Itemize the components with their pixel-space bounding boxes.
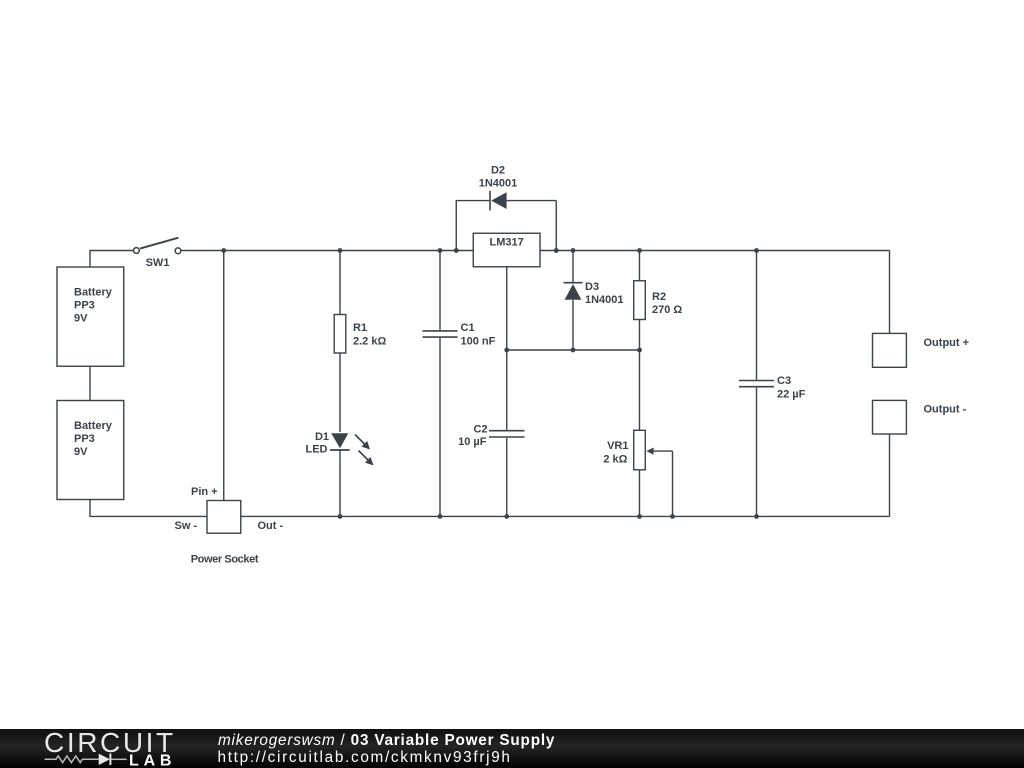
wire Pin+ vertical (top rail to socket)	[223, 251, 225, 501]
svg-text:Out -: Out -	[258, 520, 284, 532]
footer bar	[0, 729, 1024, 768]
junction dots ADJ rail	[504, 348, 642, 353]
svg-text:PP3: PP3	[74, 300, 95, 312]
junction dots top rail	[221, 248, 759, 253]
svg-text:9V: 9V	[74, 313, 88, 325]
logo resistor-diode glyph	[45, 754, 127, 765]
wire bottom rail (socket to Output-)	[241, 515, 890, 517]
op-amp U1 LM317 box	[473, 233, 540, 267]
svg-text:D1: D1	[315, 431, 329, 443]
svg-text:D2: D2	[491, 165, 505, 177]
power socket J1	[207, 501, 241, 534]
capacitor C2	[489, 350, 525, 516]
svg-text:LM317: LM317	[489, 237, 523, 249]
switch SW1	[134, 238, 181, 254]
svg-text:mikerogerswsm / 03 Variable Po: mikerogerswsm / 03 Variable Power Supply	[218, 732, 555, 749]
svg-text:Battery: Battery	[74, 420, 113, 432]
svg-text:1N4001: 1N4001	[479, 178, 518, 190]
svg-text:Battery: Battery	[74, 287, 113, 299]
svg-text:10 µF: 10 µF	[458, 436, 487, 448]
battery B2	[57, 401, 124, 500]
svg-text:R2: R2	[652, 291, 666, 303]
svg-text:9V: 9V	[74, 446, 88, 458]
wire top rail right (LM317 to Output+ corner)	[540, 250, 890, 252]
svg-text:Pin +: Pin +	[191, 486, 218, 498]
svg-text:1N4001: 1N4001	[585, 294, 624, 306]
svg-text:C1: C1	[461, 322, 475, 334]
wire top rail left (switch to LM317)	[181, 250, 473, 252]
svg-text:http://circuitlab.com/ckmknv93: http://circuitlab.com/ckmknv93frj9h	[218, 749, 512, 766]
svg-text:VR1: VR1	[607, 440, 628, 452]
svg-text:22 µF: 22 µF	[777, 388, 806, 400]
wire node ADJ rail	[507, 267, 640, 350]
wire between batteries	[89, 366, 91, 400]
terminal Output+	[873, 251, 907, 368]
diode D2	[456, 191, 556, 251]
diode D3	[564, 251, 583, 351]
svg-text:SW1: SW1	[146, 257, 170, 269]
svg-text:270 Ω: 270 Ω	[652, 304, 682, 316]
potentiometer VR1	[634, 350, 673, 516]
junction dots bottom rail	[338, 514, 759, 519]
svg-text:Output +: Output +	[924, 337, 970, 349]
wire battery B2 bottom to rail	[90, 500, 207, 517]
svg-text:LAB: LAB	[129, 752, 176, 768]
terminal Output-	[873, 400, 907, 516]
svg-text:Sw -: Sw -	[175, 520, 198, 532]
svg-text:PP3: PP3	[74, 433, 95, 445]
battery B1	[57, 267, 124, 366]
capacitor C3	[739, 251, 774, 517]
svg-text:Power Socket: Power Socket	[191, 554, 259, 566]
svg-text:C2: C2	[473, 424, 487, 436]
svg-text:100 nF: 100 nF	[461, 335, 496, 347]
svg-text:Output -: Output -	[924, 404, 967, 416]
svg-text:D3: D3	[585, 281, 599, 293]
svg-text:2 kΩ: 2 kΩ	[603, 454, 627, 466]
LED D1 arrows	[355, 435, 374, 466]
resistor R2	[634, 251, 646, 351]
svg-text:LED: LED	[306, 444, 328, 456]
resistor R1	[334, 251, 346, 433]
capacitor C1	[423, 251, 458, 517]
LED D1	[330, 433, 350, 516]
svg-text:R1: R1	[353, 322, 367, 334]
svg-text:2.2 kΩ: 2.2 kΩ	[353, 335, 386, 347]
wire battery B1 top to switch	[90, 251, 133, 268]
svg-text:C3: C3	[777, 375, 791, 387]
